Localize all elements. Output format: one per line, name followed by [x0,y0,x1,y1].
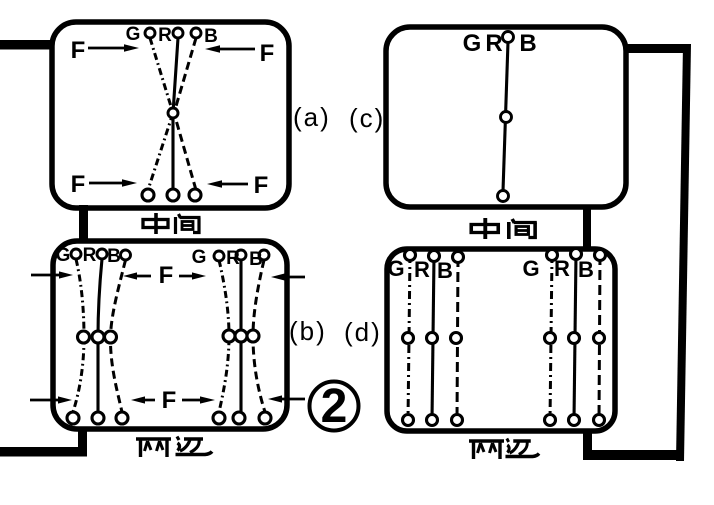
svg-text:R: R [83,245,97,266]
label zhong-jian under box (c) [471,218,498,239]
box (b) right group B-line (dashed, pinched) [253,260,265,412]
box (b) arrow top-left (crosses border) [31,271,73,278]
svg-text:F: F [71,37,86,64]
svg-text:(b): (b) [289,316,327,346]
svg-text:G: G [192,247,207,268]
box (d) right group top dots [547,250,558,261]
box (d) right group R-line (solid) [574,254,576,420]
svg-text:R: R [554,256,570,281]
box (a) top dot G [145,28,155,38]
box (d) screen outline [387,249,615,431]
box (d) left group B-line (dashed) [457,257,458,420]
svg-text:(c): (c) [349,103,385,133]
wire: thick bus bar entering from left to box (a) [0,40,53,50]
box (d) left group middle dots [403,333,414,344]
box (b) arrow top mid-right [179,272,206,279]
box (c) screen outline [386,27,626,207]
svg-text:R: R [485,30,502,57]
box (a) bottom dot B [189,189,201,201]
svg-text:R: R [158,25,172,46]
box (b) right group G-line (dash-dot, pinched) [219,260,229,412]
wire: vertical drop below box (d) [583,430,592,455]
box (b) left group R-line (solid) [98,259,102,412]
svg-text:B: B [578,257,594,282]
box (b) left group middle dots [78,331,90,343]
box (c) bottom dot [498,191,509,202]
box (d) right group B-line (dashed) [599,255,600,420]
box (a) B-line (dashed, crossing) [174,38,196,190]
box (a) R-line (solid) [173,38,178,190]
svg-text:(a): (a) [293,102,331,132]
svg-text:G: G [387,256,404,281]
box (b) arrow bottom mid-left [131,396,155,403]
wire: horizontal bar from box (c) right edge to right bus [624,44,688,53]
box (d) right group G-line (dash-dot) [550,255,552,420]
box (a) top dot B [191,28,201,38]
box (b) left group top dots [71,249,81,259]
wire: bottom right horizontal bar [583,450,683,460]
label liang-bian under box (b) [136,439,171,457]
box (b) left group G-line (dash-dot, pinched) [73,259,84,412]
box (b) arrow top mid-left [123,272,151,279]
svg-text:B: B [519,30,536,57]
box (a) bottom dot R [167,189,179,201]
box (a) arrow F bottom-left [71,171,137,198]
box (b) arrow bottom-left (crosses border) [30,396,72,403]
box (b) left group bottom dots [67,412,79,424]
svg-text:B: B [249,249,263,270]
box (b) left group B-line (dashed, pinched) [110,260,125,412]
box (d) left group R-line (solid) [432,256,434,420]
wire: connector from box (a) to box (b) [79,205,88,242]
wire: connector from box (c) to box (d) [583,206,591,248]
box (d) left group bottom dots [403,415,414,426]
svg-text:F: F [71,171,86,198]
svg-text:F: F [260,40,275,67]
svg-text:G: G [56,245,71,266]
box (d) right group bottom dots [545,415,556,426]
svg-text:F: F [159,262,174,289]
svg-text:(d): (d) [344,317,382,347]
box (a) screen outline [52,22,289,208]
box (c) R-line (solid) [503,42,508,191]
svg-text:G: G [126,24,141,45]
svg-text:G: G [522,256,539,281]
box (a) top dot R [173,28,183,38]
box (b) right group top dots [214,251,224,261]
svg-text:G: G [463,30,482,57]
box (a) center crossing dot [168,108,178,118]
box (a) bottom dot G [142,189,154,201]
figure number 2 (circled) [310,380,359,433]
box (b) right group bottom dots [213,412,225,424]
box (d) right group middle dots [545,333,556,344]
wire: vertical drop below box (b) [78,428,87,456]
svg-text:B: B [107,246,121,267]
box (b) screen outline [53,241,287,429]
box (b) arrow bottom mid-right [182,396,215,403]
box (b) right group R-line (solid) [239,260,242,412]
wire: thick bus bar exiting bottom left [0,447,87,457]
svg-text:F: F [254,172,269,199]
svg-text:R: R [226,248,240,269]
svg-text:2: 2 [321,380,348,433]
svg-text:F: F [162,387,177,414]
svg-text:R: R [414,257,430,282]
box (a) G-line (dash-dot, crossing) [148,38,173,190]
label zhong-jian under box (a) [143,213,168,234]
box (d) left group top dots [405,250,416,261]
box (a) arrow F top-left [71,37,139,64]
box (c) top dot [503,32,514,43]
box (b) arrow bottom-right (crosses border) [268,395,305,402]
box (b) arrow top-right (crosses border) [271,273,305,280]
box (c) middle dot [501,112,512,123]
box (b) right group middle dots [223,330,235,342]
box (d) left group G-line (dash-dot) [408,255,410,420]
label liang-bian under box (d) [469,441,504,459]
wire: right vertical bus bar [676,44,691,461]
box (a) arrow F top-right [205,40,274,67]
box (a) arrow F bottom-right [207,172,268,199]
svg-text:B: B [437,258,453,283]
svg-text:B: B [204,26,218,47]
